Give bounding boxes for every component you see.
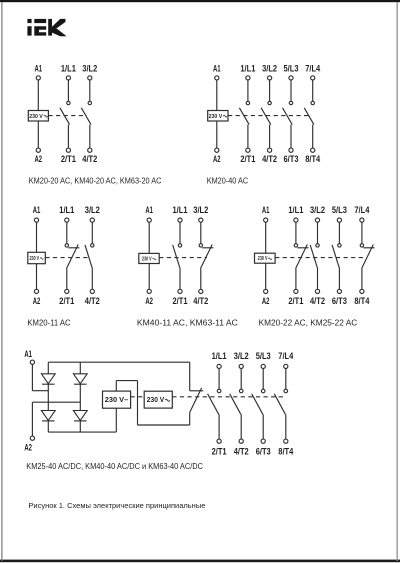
svg-text:A2: A2 xyxy=(145,296,153,306)
node 2/T1 label xyxy=(173,296,188,306)
svg-text:KM20-11 AC: KM20-11 AC xyxy=(27,318,71,327)
wire step down xyxy=(137,381,139,425)
node A2 label xyxy=(145,296,153,306)
svg-text:3/L2: 3/L2 xyxy=(262,64,277,74)
coil K1 (rectified) value label 230 V– xyxy=(105,397,129,404)
node A2 terminal xyxy=(264,289,268,293)
contact 7/L4-8/T4 fixed-contact circle xyxy=(311,101,314,104)
contact 3/L2-4/T2 moving blade xyxy=(310,245,317,268)
wire 3/L2 down xyxy=(89,80,91,101)
svg-text:2/T1: 2/T1 xyxy=(59,296,74,306)
svg-text:1/L1: 1/L1 xyxy=(212,351,227,361)
wire left branch lower xyxy=(47,421,49,432)
svg-text:A1: A1 xyxy=(213,64,221,74)
svg-text:5/L3: 5/L3 xyxy=(332,205,347,215)
node 8/T4 label xyxy=(278,446,294,456)
node 2/T1 terminal xyxy=(294,289,298,293)
contact 5/L3-6/T3 moving blade xyxy=(252,394,263,415)
svg-text:5/L3: 5/L3 xyxy=(256,351,271,361)
node A1 terminal xyxy=(147,218,151,222)
svg-text:4/T2: 4/T2 xyxy=(193,296,208,306)
svg-text:230 V: 230 V xyxy=(258,256,268,262)
wire to 4/T2 xyxy=(269,125,271,149)
diode VD3 xyxy=(41,411,55,421)
node 1/L1 terminal xyxy=(294,218,298,222)
node A1 label xyxy=(35,64,43,74)
node 2/T1 label xyxy=(59,296,74,306)
node A1 terminal xyxy=(36,76,40,80)
contact 3/L2-4/T2 fixed-contact circle xyxy=(268,101,271,104)
mechanical link dashed line between coils xyxy=(131,396,145,398)
contact 3/L2-4/T2 moving blade (NC) xyxy=(201,245,212,268)
coil KM coil box xyxy=(28,111,48,122)
contact 3/L2-4/T2 fixed-contact circle xyxy=(88,101,91,104)
coil KM coil value label 230 V~ xyxy=(142,256,156,262)
wire A1 down xyxy=(31,364,33,390)
node 4/T2 terminal xyxy=(268,148,272,152)
wire 1/L1 down xyxy=(247,80,249,101)
wire to 4/T2 xyxy=(89,125,91,149)
contact 3/L2-4/T2 fixed-contact circle xyxy=(91,244,94,247)
node A1 label xyxy=(33,205,41,215)
wire A2 to bridge right midpoint xyxy=(32,401,80,403)
node 7/L4 terminal xyxy=(311,76,315,80)
svg-text:7/L4: 7/L4 xyxy=(354,205,370,215)
node A2 terminal xyxy=(147,289,151,293)
node A2 terminal xyxy=(215,148,219,152)
wire right branch mid xyxy=(79,384,81,410)
svg-text:2/T1: 2/T1 xyxy=(240,154,255,164)
wire to 2/T1 xyxy=(67,125,69,149)
svg-text:4/T2: 4/T2 xyxy=(85,296,100,306)
wire to 2/T1 xyxy=(247,125,249,149)
svg-text:Рисунок 1. Схемы электрические: Рисунок 1. Схемы электрические принципиа… xyxy=(28,501,205,510)
node 7/L4 terminal xyxy=(284,364,288,368)
mechanical link dashed line xyxy=(48,115,86,117)
node 1/L1 label xyxy=(212,351,227,361)
wire left branch mid xyxy=(47,384,49,410)
node 8/T4 label xyxy=(354,296,370,306)
node 7/L4 terminal xyxy=(360,218,364,222)
contact 5/L3-6/T3 fixed-contact circle xyxy=(338,244,341,247)
wire to 2/T1 xyxy=(66,267,68,289)
diode VD2 xyxy=(73,374,87,384)
node 4/T2 label xyxy=(193,296,208,306)
node 1/L1 label xyxy=(173,205,188,215)
node 5/L3 terminal xyxy=(337,218,341,222)
coil KM coil box xyxy=(28,252,46,263)
wire 7/L4 down xyxy=(285,369,287,390)
node 6/T3 label xyxy=(256,446,271,456)
wire to 8/T4 xyxy=(285,414,287,439)
coil KM coil box xyxy=(208,111,228,122)
wire 1/L1 down xyxy=(66,222,68,244)
node 3/L2 label xyxy=(193,205,208,215)
node 1/L1 terminal xyxy=(65,218,69,222)
wire coil K1 top riser xyxy=(115,381,117,392)
node 2/T1 label xyxy=(288,296,303,306)
node 4/T2 label xyxy=(85,296,100,306)
node 3/L2 label xyxy=(262,64,277,74)
node 3/L2 label xyxy=(234,351,249,361)
node 6/T3 label xyxy=(332,296,347,306)
node 3/L2 terminal xyxy=(268,76,272,80)
contact 5/L3-6/T3 moving blade xyxy=(283,108,293,125)
diode VD1 xyxy=(41,374,55,384)
svg-text:KM20-40 AC: KM20-40 AC xyxy=(207,177,249,186)
contact 1/L1-2/T1 fixed-contact circle xyxy=(246,101,249,104)
contact 3/L2-4/T2 moving blade xyxy=(230,394,241,415)
coil K2 (AC) box xyxy=(144,391,172,408)
node 2/T1 terminal xyxy=(217,439,221,443)
node 6/T3 terminal xyxy=(289,148,293,152)
svg-text:1/L1: 1/L1 xyxy=(59,205,74,215)
diagram label KM20-40 AC xyxy=(207,177,249,186)
contact 1/L1-2/T1 moving blade xyxy=(60,108,70,125)
coil K1 (rectified) box xyxy=(103,391,131,408)
figure caption xyxy=(28,501,205,510)
wire to 2/T1 xyxy=(179,267,181,289)
node 1/L1 label xyxy=(59,205,74,215)
coil KM coil value label 230 V~ xyxy=(209,114,227,120)
node A1 label xyxy=(213,64,221,74)
node 7/L4 label xyxy=(354,205,370,215)
svg-text:1/L1: 1/L1 xyxy=(173,205,188,215)
contact 1/L1-2/T1 moving blade (NC) xyxy=(296,245,307,268)
contact 1/L1-2/T1 fixed-contact circle xyxy=(65,244,68,247)
svg-text:230 V: 230 V xyxy=(209,114,223,120)
wire to 2/T1 xyxy=(218,414,220,439)
contact 1/L1-2/T1 moving blade xyxy=(239,108,249,125)
wire right branch upper xyxy=(79,362,81,374)
node A1 terminal xyxy=(34,218,38,222)
node 2/T1 label xyxy=(212,446,227,456)
contact 1/L1-2/T1 fixed-contact bar xyxy=(297,247,308,249)
wire top rail down to aux contact xyxy=(189,362,191,391)
wire to 4/T2 xyxy=(317,267,319,289)
node A2 terminal xyxy=(36,148,40,152)
svg-text:4/T2: 4/T2 xyxy=(234,446,249,456)
contact 7/L4-8/T4 fixed-contact circle xyxy=(284,389,288,393)
svg-text:230 V: 230 V xyxy=(30,256,40,262)
svg-text:8/T4: 8/T4 xyxy=(354,296,370,306)
wire A2 up xyxy=(31,402,33,436)
node 1/L1 label xyxy=(240,64,255,74)
wire A1 to coil xyxy=(148,222,150,253)
coil K2 (AC) value label 230 V~ xyxy=(147,397,170,404)
contact 1/L1-2/T1 moving blade (NC) xyxy=(67,245,78,268)
contact 1/L1-2/T1 fixed-contact bar xyxy=(68,247,79,249)
svg-text:3/L2: 3/L2 xyxy=(85,205,100,215)
svg-text:A1: A1 xyxy=(145,205,153,215)
node 1/L1 terminal xyxy=(66,76,70,80)
node 3/L2 terminal xyxy=(239,364,243,368)
wire A1 to coil xyxy=(265,222,267,253)
svg-text:3/L2: 3/L2 xyxy=(234,351,249,361)
svg-text:6/T3: 6/T3 xyxy=(256,446,271,456)
svg-text:1/L1: 1/L1 xyxy=(240,64,255,74)
node A2 terminal xyxy=(34,289,38,293)
mechanical link dashed line xyxy=(228,115,309,117)
contact aux fixed bar xyxy=(190,390,204,392)
node 6/T3 label xyxy=(284,154,299,164)
wire 3/L2 down xyxy=(317,222,319,244)
coil KM coil value label 230 V~ xyxy=(29,114,47,120)
wire coil to A2 xyxy=(37,121,39,148)
svg-text:A1: A1 xyxy=(33,205,41,215)
svg-text:A2: A2 xyxy=(24,443,32,453)
wire coil to A2 xyxy=(148,264,150,290)
wire A1 to bridge left midpoint xyxy=(32,390,48,392)
node A1 label xyxy=(24,349,32,359)
node 2/T1 terminal xyxy=(66,148,70,152)
svg-text:A1: A1 xyxy=(35,64,43,74)
node 8/T4 terminal xyxy=(360,289,364,293)
node 1/L1 label xyxy=(288,205,303,215)
wire 5/L3 down xyxy=(338,222,340,244)
contact 3/L2-4/T2 fixed-contact bar xyxy=(202,247,213,249)
contact 1/L1-2/T1 fixed-contact circle xyxy=(294,244,297,247)
node A2 label xyxy=(35,154,43,164)
node 5/L3 terminal xyxy=(261,364,265,368)
node 6/T3 terminal xyxy=(337,289,341,293)
wire coil K1 bottom xyxy=(115,408,117,432)
node A2 label xyxy=(262,296,270,306)
wire 3/L2 down xyxy=(91,222,93,244)
node A1 label xyxy=(262,205,270,215)
node 3/L2 terminal xyxy=(199,218,203,222)
contact 3/L2-4/T2 moving blade xyxy=(81,108,91,125)
wire A1 to coil xyxy=(37,80,39,111)
contact 1/L1-2/T1 moving blade xyxy=(208,394,219,415)
contact 5/L3-6/T3 fixed-contact circle xyxy=(289,101,292,104)
node A1 label xyxy=(145,205,153,215)
svg-text:A2: A2 xyxy=(213,154,221,164)
node 4/T2 terminal xyxy=(199,289,203,293)
wire 1/L1 down xyxy=(218,369,220,390)
node 2/T1 terminal xyxy=(178,289,182,293)
node 5/L3 label xyxy=(332,205,347,215)
node 4/T2 terminal xyxy=(315,289,319,293)
node 3/L2 terminal xyxy=(315,218,319,222)
node 8/T4 terminal xyxy=(311,148,315,152)
svg-text:3/L2: 3/L2 xyxy=(82,64,97,74)
mechanical link dashed line xyxy=(45,257,89,259)
wire to 4/T2 xyxy=(240,414,242,439)
node A2 terminal xyxy=(30,436,34,440)
wire 1/L1 down xyxy=(179,222,181,244)
contact 1/L1-2/T1 fixed-contact circle xyxy=(217,389,221,393)
svg-text:KM40-11 AC, KM63-11 AC: KM40-11 AC, KM63-11 AC xyxy=(137,318,238,327)
svg-text:3/L2: 3/L2 xyxy=(310,205,325,215)
coil KM coil value label 230 V~ xyxy=(258,256,272,262)
wire to 8/T4 xyxy=(312,125,314,149)
IEK logo xyxy=(27,19,66,36)
svg-text:8/T4: 8/T4 xyxy=(305,154,321,164)
coil KM coil box xyxy=(139,253,159,263)
contact 5/L3-6/T3 moving blade xyxy=(332,245,339,268)
svg-text:4/T2: 4/T2 xyxy=(82,154,97,164)
node 1/L1 label xyxy=(61,64,76,74)
node 4/T2 terminal xyxy=(239,439,243,443)
diagram label KM25-40 AC/DC, KM40-40 AC/DC и KM63-40 AC/DC xyxy=(26,462,203,471)
wire bridge bottom rail xyxy=(48,431,116,433)
diode VD4 xyxy=(73,411,87,421)
svg-text:2/T1: 2/T1 xyxy=(288,296,303,306)
node A1 terminal xyxy=(264,218,268,222)
node 2/T1 terminal xyxy=(65,289,69,293)
node A1 terminal xyxy=(215,76,219,80)
node 4/T2 terminal xyxy=(90,289,94,293)
contact 7/L4-8/T4 moving blade xyxy=(304,108,314,125)
contact 3/L2-4/T2 fixed-contact circle xyxy=(199,244,202,247)
node 6/T3 terminal xyxy=(261,439,265,443)
svg-text:7/L4: 7/L4 xyxy=(305,64,321,74)
node 5/L3 terminal xyxy=(289,76,293,80)
wire 1/L1 down xyxy=(67,80,69,101)
wire coil to A2 xyxy=(265,263,267,289)
mechanical link dashed line xyxy=(275,257,363,259)
contact 7/L4-8/T4 moving blade (NC) xyxy=(362,245,373,268)
svg-text:6/T3: 6/T3 xyxy=(284,154,299,164)
node A2 label xyxy=(33,296,41,306)
node 2/T1 label xyxy=(240,154,255,164)
node A1 terminal xyxy=(30,360,34,364)
wire 5/L3 down xyxy=(262,369,264,390)
node A2 label xyxy=(213,154,221,164)
coil KM coil value label 230 V~ xyxy=(30,256,44,262)
mechanical link dashed line to contacts xyxy=(172,396,284,398)
svg-text:1/L1: 1/L1 xyxy=(61,64,76,74)
contact 3/L2-4/T2 fixed-contact circle xyxy=(239,389,243,393)
wire right branch lower xyxy=(79,421,81,432)
diagram label KM20-22 AC, KM25-22 AC xyxy=(259,318,358,327)
contact 7/L4-8/T4 moving blade xyxy=(274,394,285,415)
svg-text:2/T1: 2/T1 xyxy=(61,154,76,164)
wire 5/L3 down xyxy=(290,80,292,101)
node 4/T2 label xyxy=(262,154,277,164)
contact aux moving blade (NC) xyxy=(190,388,202,413)
svg-text:6/T3: 6/T3 xyxy=(332,296,347,306)
svg-text:2/T1: 2/T1 xyxy=(212,446,227,456)
wire to 6/T3 xyxy=(338,267,340,289)
wire left branch upper xyxy=(47,362,49,374)
wire 3/L2 down xyxy=(240,369,242,390)
node 7/L4 label xyxy=(305,64,321,74)
wire 7/L4 down xyxy=(312,80,314,101)
wire coil to A2 xyxy=(36,264,38,290)
wire up to aux contact xyxy=(189,412,191,425)
node 4/T2 label xyxy=(310,296,325,306)
svg-text:A2: A2 xyxy=(35,154,43,164)
coil KM coil box xyxy=(255,253,276,263)
node 3/L2 terminal xyxy=(88,76,92,80)
node 8/T4 terminal xyxy=(284,439,288,443)
svg-text:A1: A1 xyxy=(24,349,32,359)
diagram label KM20-20 AC, KM40-20 AC, KM63-20 AC xyxy=(29,177,162,186)
node 5/L3 label xyxy=(256,351,271,361)
node 5/L3 label xyxy=(284,64,299,74)
wire to 2/T1 xyxy=(295,267,297,289)
wire to 8/T4 xyxy=(361,267,363,289)
contact 3/L2-4/T2 fixed-contact circle xyxy=(316,244,319,247)
node 3/L2 label xyxy=(85,205,100,215)
wire to 4/T2 xyxy=(91,267,93,289)
contact 5/L3-6/T3 fixed-contact circle xyxy=(261,389,265,393)
svg-text:8/T4: 8/T4 xyxy=(278,446,294,456)
node A2 label xyxy=(24,443,32,453)
svg-text:230 V: 230 V xyxy=(147,397,165,404)
svg-text:KM25-40 AC/DC, KM40-40 AC/DC и: KM25-40 AC/DC, KM40-40 AC/DC и KM63-40 A… xyxy=(26,462,203,471)
wire 1/L1 down xyxy=(295,222,297,244)
svg-text:3/L2: 3/L2 xyxy=(193,205,208,215)
svg-text:4/T2: 4/T2 xyxy=(262,154,277,164)
svg-text:A1: A1 xyxy=(262,205,270,215)
wire A1 to coil xyxy=(216,80,218,111)
svg-text:2/T1: 2/T1 xyxy=(173,296,188,306)
node 2/T1 label xyxy=(61,154,76,164)
svg-text:230 V–: 230 V– xyxy=(105,397,129,404)
diagram label KM40-11 AC, KM63-11 AC xyxy=(137,318,238,327)
contact 1/L1-2/T1 moving blade xyxy=(173,245,180,268)
node 3/L2 label xyxy=(82,64,97,74)
svg-text:5/L3: 5/L3 xyxy=(284,64,299,74)
node 3/L2 label xyxy=(310,205,325,215)
wire 3/L2 down xyxy=(269,80,271,101)
wire to 6/T3 xyxy=(262,414,264,439)
node 4/T2 label xyxy=(82,154,97,164)
svg-text:KM20-20 AC, KM40-20 AC, KM63-2: KM20-20 AC, KM40-20 AC, KM63-20 AC xyxy=(29,177,162,186)
svg-text:A2: A2 xyxy=(33,296,41,306)
svg-text:7/L4: 7/L4 xyxy=(278,351,294,361)
diagram label KM20-11 AC xyxy=(27,318,71,327)
node 7/L4 label xyxy=(278,351,294,361)
wire coil to A2 xyxy=(216,121,218,148)
node 8/T4 label xyxy=(305,154,321,164)
contact 3/L2-4/T2 moving blade xyxy=(85,245,92,268)
wire 7/L4 down xyxy=(361,222,363,244)
wire bottom return xyxy=(138,424,190,426)
wire to 6/T3 xyxy=(290,125,292,149)
svg-text:4/T2: 4/T2 xyxy=(310,296,325,306)
contact 7/L4-8/T4 fixed-contact circle xyxy=(360,244,363,247)
node 1/L1 terminal xyxy=(178,218,182,222)
svg-text:A2: A2 xyxy=(262,296,270,306)
wire to 4/T2 xyxy=(200,267,202,289)
svg-text:230 V: 230 V xyxy=(142,256,152,262)
contact 1/L1-2/T1 fixed-contact circle xyxy=(67,101,70,104)
wire A1 to coil xyxy=(36,222,38,252)
contact 1/L1-2/T1 fixed-contact circle xyxy=(178,244,181,247)
svg-text:KM20-22 AC, KM25-22 AC: KM20-22 AC, KM25-22 AC xyxy=(259,318,358,327)
mechanical link dashed line xyxy=(159,257,207,259)
node 4/T2 label xyxy=(234,446,249,456)
contact 7/L4-8/T4 fixed-contact bar xyxy=(363,247,374,249)
node 3/L2 terminal xyxy=(90,218,94,222)
svg-text:1/L1: 1/L1 xyxy=(288,205,303,215)
wire coil K1 top horizontal xyxy=(116,380,137,382)
node 1/L1 terminal xyxy=(217,364,221,368)
wire bridge top rail xyxy=(48,361,189,363)
svg-text:230 V: 230 V xyxy=(29,114,43,120)
node 1/L1 terminal xyxy=(246,76,250,80)
node 4/T2 terminal xyxy=(88,148,92,152)
contact 3/L2-4/T2 moving blade xyxy=(261,108,271,125)
wire 3/L2 down xyxy=(200,222,202,244)
node 2/T1 terminal xyxy=(246,148,250,152)
